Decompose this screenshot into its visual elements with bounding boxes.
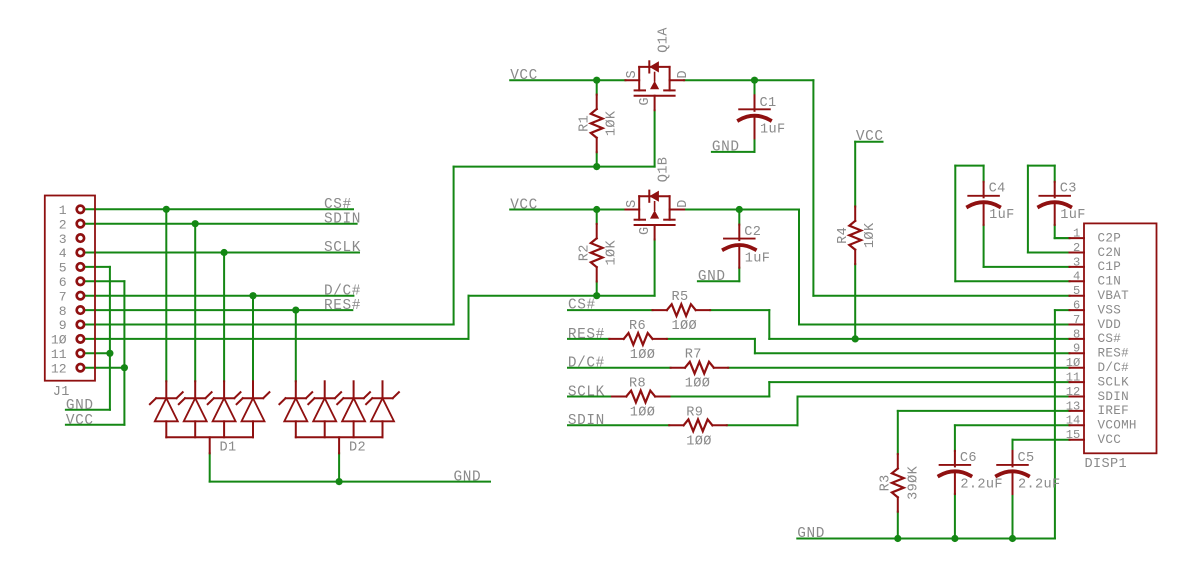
svg-text:8: 8 [1073, 327, 1080, 341]
svg-text:RES#: RES# [324, 298, 361, 314]
svg-text:1ØK: 1ØK [605, 239, 620, 265]
svg-text:R7: R7 [685, 348, 702, 363]
svg-text:D: D [676, 199, 691, 208]
svg-text:1ØØ: 1ØØ [685, 377, 711, 392]
svg-text:C3: C3 [1060, 182, 1077, 197]
svg-text:R9: R9 [686, 405, 703, 420]
svg-text:SCLK: SCLK [324, 240, 361, 256]
svg-text:1: 1 [59, 203, 67, 218]
svg-text:1ØØ: 1ØØ [630, 348, 656, 363]
svg-text:2: 2 [59, 217, 67, 232]
svg-text:IREF: IREF [1098, 404, 1129, 418]
svg-text:9: 9 [59, 318, 67, 333]
svg-text:4: 4 [59, 246, 67, 261]
svg-text:C1P: C1P [1098, 260, 1122, 274]
svg-text:R1: R1 [578, 115, 593, 132]
svg-text:3: 3 [1073, 255, 1080, 269]
svg-text:1uF: 1uF [1060, 208, 1086, 223]
svg-text:C4: C4 [989, 182, 1006, 197]
svg-text:VBAT: VBAT [1098, 289, 1130, 303]
svg-text:VCC: VCC [66, 413, 94, 429]
svg-text:1Ø: 1Ø [51, 333, 67, 348]
svg-text:G: G [638, 97, 653, 106]
svg-text:R2: R2 [578, 244, 593, 261]
svg-text:Q1A: Q1A [656, 27, 671, 53]
svg-text:VCC: VCC [510, 197, 538, 213]
svg-text:5: 5 [59, 261, 67, 276]
svg-text:5: 5 [1073, 284, 1080, 298]
svg-text:1Ø: 1Ø [1066, 356, 1081, 370]
svg-text:GND: GND [66, 398, 94, 414]
svg-text:7: 7 [59, 289, 67, 304]
svg-text:GND: GND [797, 526, 825, 542]
svg-text:VSS: VSS [1098, 303, 1122, 317]
svg-text:1uF: 1uF [989, 208, 1015, 223]
svg-text:1ØØ: 1ØØ [630, 406, 656, 421]
svg-text:DISP1: DISP1 [1085, 457, 1128, 472]
svg-text:RES#: RES# [1098, 347, 1130, 361]
svg-text:15: 15 [1066, 428, 1081, 442]
svg-text:1: 1 [1073, 227, 1080, 241]
svg-text:S: S [625, 199, 640, 208]
svg-text:SCLK: SCLK [1098, 375, 1130, 389]
svg-text:4: 4 [1073, 270, 1080, 284]
svg-text:1uF: 1uF [745, 252, 771, 267]
svg-text:D2: D2 [349, 441, 366, 456]
svg-text:D/C#: D/C# [568, 356, 605, 372]
svg-text:R4: R4 [836, 227, 851, 244]
svg-text:1ØK: 1ØK [605, 110, 620, 136]
svg-text:C1: C1 [760, 96, 777, 111]
svg-text:G: G [638, 226, 653, 235]
svg-text:1uF: 1uF [760, 122, 786, 137]
svg-text:C1N: C1N [1098, 275, 1122, 289]
svg-text:GND: GND [454, 469, 482, 485]
svg-text:SDIN: SDIN [568, 413, 605, 429]
svg-text:D/C#: D/C# [1098, 361, 1130, 375]
svg-text:14: 14 [1066, 414, 1081, 428]
svg-text:D1: D1 [220, 441, 237, 456]
svg-text:R6: R6 [629, 319, 646, 334]
svg-text:SDIN: SDIN [324, 211, 361, 227]
svg-text:S: S [625, 70, 640, 79]
svg-text:C2N: C2N [1098, 246, 1122, 260]
svg-text:VCC: VCC [510, 68, 538, 84]
svg-text:Q1B: Q1B [656, 157, 671, 183]
svg-text:R8: R8 [629, 377, 646, 392]
svg-text:C6: C6 [960, 451, 977, 466]
svg-text:7: 7 [1073, 313, 1080, 327]
svg-text:3: 3 [59, 232, 67, 247]
svg-text:39ØK: 39ØK [906, 465, 921, 500]
svg-text:R5: R5 [672, 290, 689, 305]
svg-text:CS#: CS# [568, 298, 596, 314]
svg-text:VDD: VDD [1098, 318, 1122, 332]
svg-text:C2: C2 [744, 225, 761, 240]
svg-text:VCC: VCC [856, 129, 884, 145]
svg-text:8: 8 [59, 304, 67, 319]
svg-text:2.2uF: 2.2uF [960, 477, 1003, 492]
svg-text:GND: GND [698, 269, 726, 285]
svg-text:12: 12 [1066, 385, 1081, 399]
svg-text:VCOMH: VCOMH [1098, 419, 1137, 433]
svg-text:D: D [676, 70, 691, 79]
svg-text:2.2uF: 2.2uF [1018, 477, 1061, 492]
svg-text:1ØK: 1ØK [863, 222, 878, 248]
svg-text:13: 13 [1066, 399, 1081, 413]
svg-text:CS#: CS# [1098, 332, 1122, 346]
svg-text:C2P: C2P [1098, 231, 1122, 245]
svg-text:11: 11 [1066, 371, 1081, 385]
svg-text:9: 9 [1073, 342, 1080, 356]
svg-text:C5: C5 [1018, 451, 1035, 466]
svg-text:SCLK: SCLK [568, 384, 605, 400]
svg-text:1ØØ: 1ØØ [672, 319, 698, 334]
svg-text:11: 11 [51, 347, 67, 362]
svg-text:RES#: RES# [568, 327, 605, 343]
svg-text:R3: R3 [879, 474, 894, 491]
svg-text:1ØØ: 1ØØ [686, 434, 712, 449]
svg-text:SDIN: SDIN [1098, 390, 1129, 404]
svg-text:GND: GND [712, 140, 740, 156]
svg-text:6: 6 [1073, 299, 1080, 313]
svg-text:12: 12 [51, 361, 67, 376]
svg-text:6: 6 [59, 275, 67, 290]
svg-text:VCC: VCC [1098, 433, 1122, 447]
svg-text:2: 2 [1073, 241, 1080, 255]
